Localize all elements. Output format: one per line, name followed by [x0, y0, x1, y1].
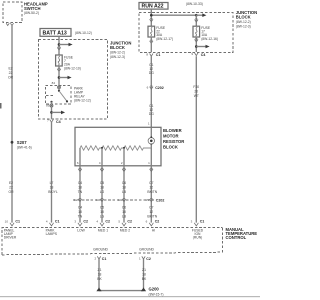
connector above fuse 22 — [150, 19, 153, 22]
svg-text:C2: C2 — [155, 219, 160, 223]
svg-text:18: 18 — [142, 273, 146, 277]
svg-text:LOW: LOW — [77, 229, 85, 233]
node: batt feed branch — [58, 43, 61, 46]
arrow: feed continues — [59, 76, 72, 80]
svg-text:18: 18 — [50, 186, 54, 190]
wire label C7 12 BK/TN (upper) — [147, 181, 157, 194]
wire: ground left Z1 — [98, 259, 100, 288]
svg-text:(8W-12-17): (8W-12-17) — [156, 37, 173, 41]
svg-text:LG: LG — [100, 214, 105, 218]
wire: med1 to MTC — [101, 166, 103, 223]
svg-text:GROUND: GROUND — [93, 248, 108, 252]
connector C4 (JB left exit) — [47, 119, 60, 124]
svg-text:C6: C6 — [122, 205, 126, 209]
thermal limiter — [148, 127, 154, 148]
connector C4 (JB right exit, fuse 17) — [191, 52, 205, 57]
wire label C5 18 LG (lower) — [100, 205, 105, 218]
svg-text:C4: C4 — [78, 205, 82, 209]
svg-text:13: 13 — [96, 198, 100, 202]
wire label C7 12 BK/TN (lower) — [147, 205, 157, 218]
svg-text:RUN A22: RUN A22 — [142, 4, 164, 10]
svg-text:TN: TN — [78, 214, 83, 218]
svg-text:C5: C5 — [100, 181, 104, 185]
svg-text:18: 18 — [122, 210, 126, 214]
wire: med2 to MTC — [123, 166, 125, 223]
wire: batt a13 to fuse 7 — [58, 36, 60, 55]
wire label C1 12 DG (upper) — [149, 63, 154, 75]
svg-text:(8W-12-3): (8W-12-3) — [236, 24, 251, 28]
headlamp switch terminal (output) — [10, 23, 13, 25]
node: park lamp branch — [50, 111, 53, 114]
svg-text:E2: E2 — [9, 181, 13, 185]
svg-text:14: 14 — [118, 198, 122, 202]
batt a13 feed box — [40, 29, 92, 37]
connector above fuse 17 — [195, 19, 198, 22]
svg-text:18: 18 — [78, 186, 82, 190]
arrow: run feed continues — [196, 13, 206, 17]
wire: low drop — [79, 148, 81, 166]
wire label Z1 18 BK (right) — [142, 268, 147, 281]
connector below fuse 7 — [57, 68, 60, 71]
svg-text:CONTROL: CONTROL — [226, 235, 247, 240]
wire label E2 22 OR (upper) — [8, 67, 14, 80]
svg-text:C1: C1 — [102, 257, 107, 261]
wire label C6 18 LB (lower) — [122, 205, 127, 218]
wire label E2 22 OR (lower) — [8, 181, 14, 194]
wire: relay output to JB C4 — [51, 107, 53, 119]
svg-text:85: 85 — [46, 104, 50, 108]
connector C2 (low) — [74, 219, 88, 232]
svg-text:MOTOR: MOTOR — [163, 133, 179, 138]
svg-text:DG: DG — [149, 112, 154, 116]
resistor R1 — [80, 146, 102, 150]
connector above fuse 7 — [57, 47, 60, 50]
splice S207 — [11, 140, 32, 150]
svg-text:DG: DG — [149, 71, 154, 75]
svg-text:20: 20 — [194, 89, 198, 93]
svg-text:(8W-10-12): (8W-10-12) — [75, 31, 92, 35]
svg-text:C1: C1 — [156, 53, 161, 57]
svg-text:BK: BK — [97, 277, 102, 281]
svg-text:C7: C7 — [149, 181, 153, 185]
junction block (left) dashed box — [39, 40, 132, 119]
wire: med2 drop — [123, 148, 125, 166]
svg-text:(8W-15-7): (8W-15-7) — [149, 293, 164, 297]
svg-text:BLOWER: BLOWER — [163, 128, 182, 133]
wire: fused ign F20 to MTC — [195, 56, 197, 222]
svg-text:(8W-41-6): (8W-41-6) — [17, 146, 32, 150]
node: tap med1 — [101, 147, 103, 149]
wire: med1 drop — [101, 148, 103, 166]
wire: fuse 17 to JB C4 exit — [195, 37, 197, 52]
svg-text:MED 2: MED 2 — [120, 229, 130, 233]
connector C202 row — [73, 199, 154, 201]
svg-text:C6: C6 — [122, 181, 126, 185]
svg-text:RESISTOR: RESISTOR — [163, 139, 184, 144]
svg-text:S207: S207 — [17, 140, 27, 145]
connector below fuse 22 — [150, 40, 153, 43]
svg-text:10: 10 — [5, 219, 9, 223]
svg-text:C4: C4 — [78, 181, 82, 185]
svg-text:C4: C4 — [56, 120, 61, 124]
node: fused ign branch — [195, 45, 198, 48]
connector C1 (panel lamp driver) — [4, 219, 20, 239]
connector below resistor block (med1) — [100, 168, 103, 171]
svg-text:(RUN): (RUN) — [193, 236, 202, 240]
wire label F20 20 WT — [193, 85, 199, 98]
wire: JB C1 to blower resistor block — [150, 56, 152, 127]
svg-text:BLOCK: BLOCK — [236, 15, 251, 20]
connector C2 (hi) — [146, 219, 160, 232]
fuse F22 — [148, 26, 173, 41]
svg-text:(8W-10-33): (8W-10-33) — [186, 2, 203, 6]
svg-text:BK: BK — [142, 277, 147, 281]
svg-text:WT: WT — [194, 94, 199, 98]
wire: fuse 17 drop from bus — [195, 15, 197, 26]
fuse F17 — [193, 26, 218, 41]
park lamp relay box — [46, 86, 91, 104]
wire label C5 18 LG (upper) — [100, 181, 105, 194]
node: bus left — [150, 14, 153, 17]
svg-text:LG: LG — [100, 190, 105, 194]
svg-text:C2: C2 — [105, 219, 110, 223]
svg-text:TN: TN — [78, 190, 83, 194]
svg-text:C1: C1 — [200, 219, 205, 223]
wire label L7 18 BK/YL — [48, 181, 58, 194]
ground (left) — [96, 287, 101, 291]
svg-text:18: 18 — [100, 186, 104, 190]
node: ground (left) label — [93, 248, 108, 261]
svg-text:BLOCK: BLOCK — [163, 144, 178, 149]
svg-text:(8W-12-10): (8W-12-10) — [64, 66, 81, 70]
svg-text:C2: C2 — [146, 257, 151, 261]
wire: fuse 7 to park lamp relay — [58, 66, 60, 85]
svg-text:18: 18 — [78, 210, 82, 214]
svg-text:Z1: Z1 — [142, 268, 146, 272]
svg-text:BK/YL: BK/YL — [48, 190, 58, 194]
relay armature — [46, 89, 68, 103]
svg-text:Z1: Z1 — [98, 268, 102, 272]
svg-text:12: 12 — [149, 210, 153, 214]
svg-text:BATT A13: BATT A13 — [43, 30, 67, 36]
svg-text:(8W-12-12): (8W-12-12) — [74, 99, 91, 103]
wire: fuse 22 to JB C1 exit — [150, 37, 152, 52]
svg-text:C2: C2 — [127, 219, 132, 223]
svg-text:C2: C2 — [83, 219, 88, 223]
headlamp switch box — [3, 2, 48, 23]
svg-text:MED 1: MED 1 — [98, 229, 108, 233]
connector below resistor block (med2) — [122, 168, 125, 171]
svg-text:18: 18 — [98, 273, 102, 277]
wire: JB C4 to MTC park lamps — [51, 122, 53, 223]
wire label C6 18 LB (upper) — [122, 181, 127, 194]
wire: hi drop — [150, 148, 152, 166]
svg-text:G200: G200 — [149, 287, 160, 292]
connector C202 (blower feed) — [147, 86, 164, 90]
svg-text:OR: OR — [8, 75, 14, 79]
wire label C4 18 TN (lower) — [78, 205, 83, 218]
connector below resistor block (low) — [78, 168, 81, 171]
svg-text:GROUND: GROUND — [139, 248, 154, 252]
connector C1 (park lamps) — [46, 219, 60, 236]
ground G200 — [141, 287, 164, 297]
svg-text:C7: C7 — [149, 205, 153, 209]
wire: run a22 drop — [150, 9, 152, 26]
connector C1 (JB right exit, fuse 22) — [146, 53, 160, 58]
svg-text:BK/TN: BK/TN — [147, 190, 157, 194]
svg-text:C202: C202 — [155, 86, 164, 90]
svg-text:84: 84 — [52, 81, 56, 85]
svg-text:12: 12 — [149, 186, 153, 190]
headlamp switch terminal (unused) — [6, 23, 9, 25]
svg-text:C1: C1 — [55, 219, 60, 223]
svg-text:C1: C1 — [15, 219, 20, 223]
svg-text:15: 15 — [145, 198, 149, 202]
connector C2 (med 2) — [118, 219, 132, 232]
svg-text:DRIVER: DRIVER — [4, 236, 17, 240]
resistor R2 — [102, 146, 124, 150]
connector C2 (med 1) — [96, 219, 110, 232]
run a22 feed box — [139, 2, 203, 10]
wire: ground right Z1 — [143, 259, 145, 288]
fuse F7 — [56, 55, 81, 70]
svg-text:12: 12 — [74, 198, 78, 202]
svg-text:OR: OR — [8, 190, 14, 194]
relay terminal (input) — [58, 86, 61, 89]
connector C1 (fused ign) — [191, 219, 205, 239]
wire label Z1 18 BK (left) — [97, 268, 102, 281]
wire: ground bus — [99, 290, 144, 292]
svg-text:BLOCK: BLOCK — [110, 45, 125, 50]
svg-text:C202: C202 — [156, 199, 165, 203]
svg-text:22: 22 — [9, 186, 13, 190]
manual temperature control box — [2, 227, 257, 255]
svg-text:C4: C4 — [201, 53, 206, 57]
wire: hi to MTC — [150, 166, 152, 223]
svg-text:(8W-12-3): (8W-12-3) — [110, 55, 125, 59]
svg-text:F20: F20 — [193, 85, 199, 89]
node: relay feed branch — [58, 76, 61, 79]
arrow: park lamps continue — [52, 111, 66, 115]
node: ground (right) label — [139, 248, 154, 261]
svg-text:BK/TN: BK/TN — [147, 214, 157, 218]
resistor R3 — [124, 146, 151, 150]
arrow: feed continues — [59, 43, 73, 47]
svg-text:18: 18 — [100, 210, 104, 214]
wire: headlamp switch to MTC panel lamp driver — [11, 25, 13, 222]
blower motor resistor block box — [75, 127, 184, 166]
wire label C1 12 DG (lower) — [149, 104, 154, 116]
wire: run bus — [151, 14, 196, 16]
node: bus right — [195, 14, 198, 17]
relay contact (output) — [50, 101, 53, 107]
svg-text:18: 18 — [122, 186, 126, 190]
svg-text:LAMPS: LAMPS — [46, 232, 58, 236]
svg-text:(8W-50-2): (8W-50-2) — [24, 11, 39, 15]
wire label C4 18 TN (upper) — [78, 181, 83, 194]
junction block (right) dashed box — [139, 10, 257, 53]
connector below fuse 17 — [195, 39, 198, 42]
node: tap med2 — [123, 147, 125, 149]
svg-text:(8W-12-16): (8W-12-16) — [201, 37, 218, 41]
svg-text:L7: L7 — [50, 181, 54, 185]
wire: low to MTC — [79, 166, 81, 223]
arrow: fused ign continues — [196, 45, 209, 49]
connector below resistor block (hi) — [150, 168, 153, 171]
svg-text:C5: C5 — [100, 205, 104, 209]
svg-text:HI: HI — [152, 229, 155, 233]
